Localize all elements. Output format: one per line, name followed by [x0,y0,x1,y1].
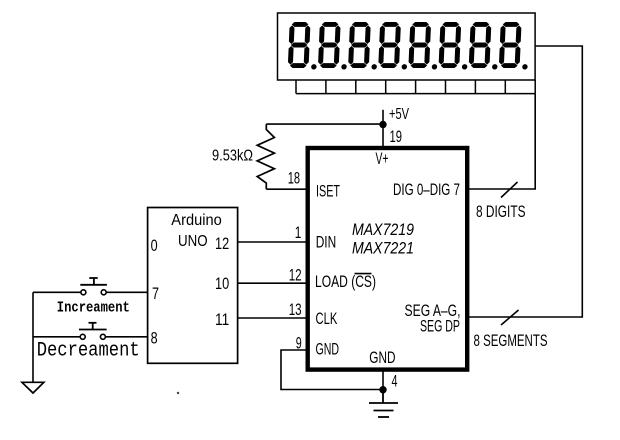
svg-text:0: 0 [151,236,158,255]
earth ground symbol [369,390,398,417]
svg-text:18: 18 [288,170,300,188]
ground [22,382,44,393]
svg-text:MAX7221: MAX7221 [352,239,414,258]
svg-text:SEG DP: SEG DP [420,318,460,336]
svg-text:10: 10 [215,274,229,293]
wire U1 GND pin 4 stem [382,371,384,390]
svg-text:8: 8 [151,329,158,348]
wire +5V node to U1 pin 19 [382,124,384,148]
svg-text:V+: V+ [376,150,389,168]
DS1 body [278,13,536,80]
wire Arduino 11 to U1 CLK [238,317,307,319]
DS1 digits 8.8.8.8.8.8.8.8. [288,22,530,70]
wire Arduino 10 to U1 LOAD [238,282,307,284]
wire button2 net to Arduino pin 8 [33,336,147,338]
wire Arduino 12 to U1 DIN [238,241,307,243]
wire ground net vertical [32,292,34,382]
display connector pins [296,80,535,94]
IC U1 MAX7219/MAX7221 body [308,148,468,370]
bus slash 8 digits [501,182,518,198]
svg-text:8 DIGITS: 8 DIGITS [476,203,526,221]
pushbutton SW1 [80,278,107,295]
wire button1 net to Arduino pin 7 [33,291,147,293]
wire SEG bus: display right to U1 SEG pins [467,46,582,317]
svg-text:Increament: Increament [57,299,130,316]
resistor R1 [257,124,274,189]
Arduino UNO module A1 [148,208,238,364]
svg-text:LOAD (CS): LOAD (CS) [315,273,376,291]
wire resistor top to +5V node [266,123,383,125]
svg-text:1: 1 [295,224,302,242]
display DS1 8-digit 7-segment module [278,13,536,80]
A1 body [148,208,238,364]
svg-text:Decreament: Decreament [37,340,140,363]
svg-text:MAX7219: MAX7219 [352,220,414,239]
wire R1 bottom to U1 ISET pin 18 [266,188,307,190]
bus slash 8 segments [501,310,519,325]
svg-text:12: 12 [215,234,229,253]
wire +5V stub [382,110,384,124]
svg-text:GND: GND [369,349,395,367]
svg-text:4: 4 [392,372,398,390]
svg-text:9.53kΩ: 9.53kΩ [212,148,253,165]
svg-text:9: 9 [296,335,302,353]
pushbutton SW2 [79,323,107,340]
svg-text:ISET: ISET [316,183,340,201]
svg-text:19: 19 [390,128,403,146]
wire U1 GND pin 9 loop to ground node [281,350,380,390]
svg-text:13: 13 [289,301,302,319]
svg-text:+5V: +5V [389,106,409,123]
svg-text:7: 7 [152,284,159,303]
svg-text:DIN: DIN [316,233,337,251]
stray dot [177,392,179,394]
node +5V junction dot [379,121,386,128]
wire DIG bus: connector to U1 DIG pins [467,94,535,189]
node GND junction dot [379,386,386,393]
svg-text:8 SEGMENTS: 8 SEGMENTS [474,332,548,350]
svg-text:GND: GND [316,341,340,359]
svg-text:DIG 0–DIG 7: DIG 0–DIG 7 [393,181,460,199]
svg-text:CLK: CLK [316,310,338,328]
svg-text:UNO: UNO [178,233,208,250]
svg-text:11: 11 [215,310,229,329]
svg-text:12: 12 [289,266,302,284]
overline on CS [355,273,372,275]
svg-text:Arduino: Arduino [171,212,222,229]
